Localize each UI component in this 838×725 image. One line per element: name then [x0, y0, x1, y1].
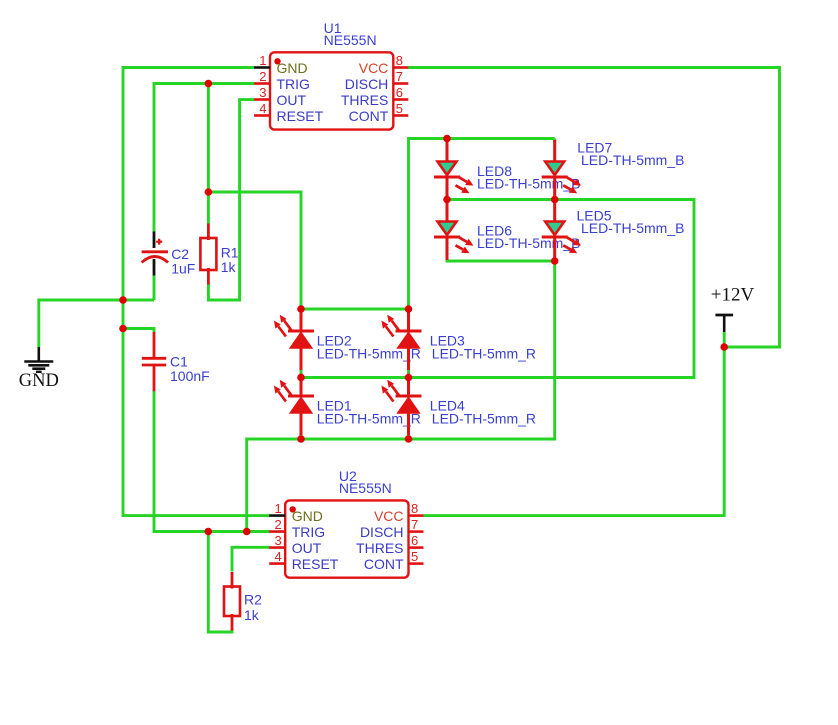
svg-text:1: 1: [259, 53, 266, 68]
svg-text:7: 7: [411, 517, 418, 532]
svg-text:OUT: OUT: [277, 92, 307, 108]
svg-text:LED-TH-5mm_R: LED-TH-5mm_R: [432, 346, 536, 362]
svg-text:7: 7: [396, 69, 403, 84]
svg-text:+12V: +12V: [711, 285, 755, 306]
svg-text:THRES: THRES: [356, 540, 403, 556]
svg-text:NE555N: NE555N: [324, 32, 377, 48]
svg-text:VCC: VCC: [374, 508, 404, 524]
svg-text:CONT: CONT: [364, 556, 404, 572]
svg-text:LED-TH-5mm_B: LED-TH-5mm_B: [581, 220, 684, 236]
svg-text:LED-TH-5mm_R: LED-TH-5mm_R: [432, 411, 536, 427]
svg-text:3: 3: [259, 85, 266, 100]
svg-text:1k: 1k: [221, 259, 237, 275]
svg-text:CONT: CONT: [349, 108, 389, 124]
svg-text:VCC: VCC: [359, 60, 389, 76]
svg-text:DISCH: DISCH: [345, 76, 389, 92]
svg-text:THRES: THRES: [341, 92, 388, 108]
svg-text:4: 4: [274, 549, 281, 564]
svg-text:DISCH: DISCH: [360, 524, 404, 540]
svg-text:100nF: 100nF: [170, 368, 210, 384]
svg-text:GND: GND: [19, 371, 59, 391]
svg-text:1: 1: [274, 501, 281, 516]
svg-text:NE555N: NE555N: [339, 480, 392, 496]
svg-text:1k: 1k: [244, 607, 260, 623]
svg-text:GND: GND: [292, 508, 323, 524]
svg-text:2: 2: [274, 517, 281, 532]
svg-text:8: 8: [411, 501, 418, 516]
svg-text:RESET: RESET: [292, 556, 339, 572]
svg-text:2: 2: [259, 69, 266, 84]
svg-text:5: 5: [396, 101, 403, 116]
svg-text:TRIG: TRIG: [292, 524, 325, 540]
svg-text:TRIG: TRIG: [277, 76, 310, 92]
svg-text:RESET: RESET: [277, 108, 324, 124]
svg-text:6: 6: [411, 533, 418, 548]
svg-text:5: 5: [411, 549, 418, 564]
svg-text:4: 4: [259, 101, 266, 116]
svg-text:1uF: 1uF: [171, 261, 195, 277]
svg-text:8: 8: [396, 53, 403, 68]
svg-text:3: 3: [274, 533, 281, 548]
svg-text:LED-TH-5mm_B: LED-TH-5mm_B: [581, 152, 684, 168]
svg-text:GND: GND: [277, 60, 308, 76]
svg-text:OUT: OUT: [292, 540, 322, 556]
svg-text:R2: R2: [244, 592, 262, 608]
svg-text:6: 6: [396, 85, 403, 100]
